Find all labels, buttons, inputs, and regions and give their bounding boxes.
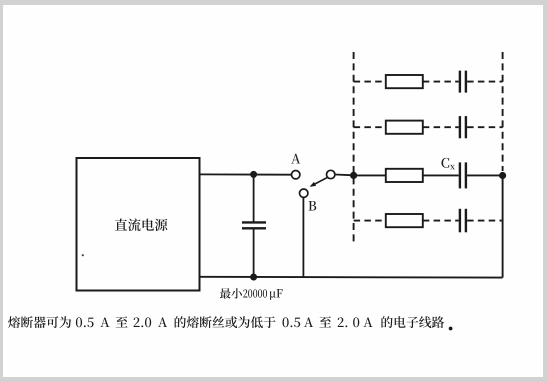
ideographic full stop [449, 327, 453, 331]
wire: right vertical return to bottom [502, 176, 504, 278]
label B [308, 201, 316, 211]
capacitor in branch 1 [460, 71, 466, 93]
scan speck (artifact in source) [82, 254, 84, 256]
DC power source box [77, 158, 200, 291]
switch S1 terminal A [292, 171, 300, 179]
wire: branch 1 left segment [354, 81, 386, 83]
resistor R2 [386, 121, 423, 134]
capacitor in branch 2 [460, 116, 466, 138]
node: bottom junction at filter capacitor [250, 274, 257, 281]
wire: bottom return from box to right branch network [200, 276, 503, 279]
wire: branch 3 (measured, Cx) middle segment [423, 174, 459, 176]
wire: terminal B down to bottom return [302, 197, 304, 277]
capacitor in branch 3 (measured, Cx) [460, 162, 466, 188]
dashed bus line (right, vertical) [502, 52, 504, 171]
wire: branch 1 right segment [467, 81, 503, 83]
resistor R3 [386, 169, 423, 182]
wire: branch 3 (measured, Cx) right segment [467, 174, 503, 176]
node: top junction at filter capacitor [250, 171, 257, 178]
capacitor C1 (filter, min 20000 uF) [242, 174, 266, 277]
wire: branch 4 left segment [354, 220, 386, 222]
label 直流电源 [115, 218, 168, 231]
wire: branch 2 middle segment [423, 126, 459, 128]
wire: branch 1 middle segment [423, 81, 459, 83]
node: branch 3 right junction [499, 172, 506, 179]
switch S1 terminal B [300, 189, 308, 197]
wire: box output to switch terminal A [200, 173, 292, 175]
wire: branch 4 right segment [467, 220, 503, 222]
dashed bus line (left, vertical) [353, 52, 355, 245]
wire: branch 3 (measured, Cx) left segment [354, 174, 386, 176]
wire: switch pole to branch network node [335, 174, 354, 177]
capacitor in branch 4 [460, 209, 466, 233]
label 最小20000μF [220, 288, 283, 300]
label A [291, 154, 300, 164]
node: branch 3 left junction [350, 172, 357, 179]
resistor R4 [386, 214, 423, 227]
wire: branch 2 left segment [354, 126, 386, 128]
note text: fuse rating sentence [8, 316, 444, 328]
switch S1 arm (arrow toward B) [310, 177, 328, 186]
resistor R1 [386, 75, 423, 88]
switch S1 pole terminal [327, 170, 335, 178]
wire: branch 2 right segment [467, 126, 503, 128]
label Cx [441, 158, 454, 169]
wire: branch 4 middle segment [423, 220, 459, 222]
